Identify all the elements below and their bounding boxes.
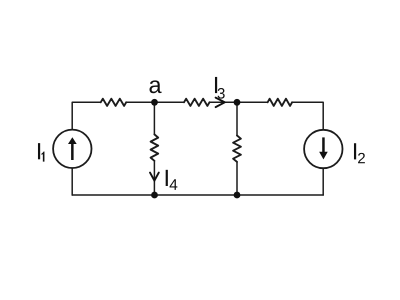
wire R1 to node a bbox=[126, 101, 154, 103]
node dot bottom under a bbox=[151, 192, 158, 199]
label I1 bbox=[38, 143, 40, 159]
label I2 bbox=[354, 143, 356, 159]
node a dot bbox=[151, 99, 158, 106]
wire I2 bottom to bottom-right corner bbox=[322, 169, 324, 195]
resistor R1 bbox=[101, 99, 127, 106]
wire junction B to R3 bbox=[237, 101, 268, 103]
resistor R5 bbox=[233, 136, 241, 162]
I3 current arrow chevron bbox=[216, 98, 225, 108]
node dot bottom under B bbox=[234, 192, 241, 199]
wire R4 to bottom rail bbox=[153, 161, 155, 195]
current source I2 bbox=[304, 130, 342, 168]
label I4 bbox=[166, 170, 168, 186]
resistor R2 bbox=[184, 99, 210, 106]
label I4 subscript 4 bbox=[170, 179, 178, 190]
wire I1 bottom to bottom-left corner bbox=[71, 169, 73, 195]
label I3 subscript 3 bbox=[218, 88, 225, 99]
wire top-left corner to R1 bbox=[72, 102, 101, 129]
wire R2 to junction B bbox=[210, 101, 238, 103]
resistor R3 bbox=[268, 99, 293, 106]
wire R3 to top-right corner bbox=[292, 102, 323, 129]
label node a bbox=[150, 80, 162, 93]
label I3 bbox=[215, 77, 217, 93]
resistor R4 bbox=[151, 134, 159, 160]
wire node a down to R4 bbox=[153, 102, 155, 134]
current source I1 bbox=[53, 130, 91, 168]
wire junction B down to R5 bbox=[236, 102, 238, 135]
label I2 subscript 2 bbox=[358, 153, 365, 163]
arrow inside I2 (down) bbox=[319, 137, 328, 159]
node B dot (top) bbox=[234, 99, 241, 106]
wire bottom rail bbox=[72, 194, 323, 196]
label I1 subscript 1 bbox=[42, 152, 45, 162]
wire R5 to bottom rail bbox=[236, 162, 238, 195]
I4 current arrow chevron bbox=[150, 173, 159, 181]
wire node a to R2 bbox=[155, 101, 185, 103]
arrow inside I1 (up) bbox=[68, 137, 77, 160]
